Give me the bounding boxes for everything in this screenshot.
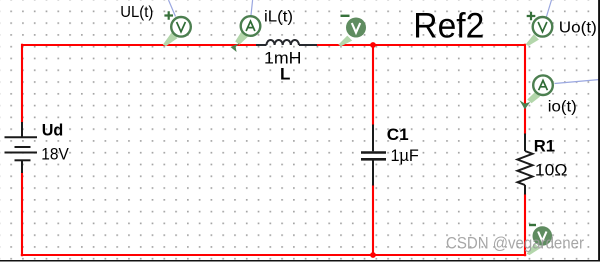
leader line UL probe	[169, 0, 176, 17]
label iL(t)	[264, 9, 293, 26]
svg-text:UL(t): UL(t)	[120, 4, 153, 21]
label Ud	[42, 121, 64, 140]
label Uo(t)	[559, 20, 597, 37]
value 1uF	[391, 147, 419, 165]
probe V UL(t)	[163, 11, 191, 46]
wire top-left segment	[22, 44, 258, 46]
junction bottom node	[370, 252, 376, 258]
wire left lower	[21, 173, 23, 257]
svg-text:Uo(t): Uo(t)	[559, 20, 597, 37]
inductor L 1mH	[256, 40, 317, 45]
leader line Uo probe	[547, 0, 552, 17]
leader line io probe	[555, 80, 600, 84]
label R1	[534, 137, 555, 156]
wire top-right segment	[316, 44, 525, 46]
battery V1 Ud 18V	[5, 122, 38, 173]
label io(t)	[548, 98, 577, 115]
capacitor C1 1uF	[361, 125, 386, 186]
label C1	[387, 125, 409, 144]
svg-text:1µF: 1µF	[391, 147, 419, 165]
right border line	[598, 0, 600, 262]
svg-text:L: L	[280, 65, 290, 84]
Ref2 title	[413, 5, 484, 45]
label L	[280, 65, 290, 84]
wire middle upper	[372, 45, 374, 126]
svg-text:CSDN @vegardener: CSDN @vegardener	[446, 235, 585, 253]
leader line iL probe	[251, 0, 253, 16]
wire middle lower	[372, 185, 374, 256]
value 18V	[41, 146, 69, 164]
probe V minus bottom	[527, 225, 553, 255]
svg-text:io(t): io(t)	[548, 98, 577, 115]
svg-text:iL(t): iL(t)	[264, 9, 293, 26]
svg-text:C1: C1	[387, 125, 409, 144]
value 10ohm	[535, 161, 568, 179]
junction top node	[370, 42, 376, 48]
bottom border line	[0, 260, 600, 262]
wire bottom	[21, 254, 526, 256]
watermark CSDN	[446, 235, 585, 253]
svg-text:10Ω: 10Ω	[535, 161, 568, 179]
wire right lower	[524, 194, 526, 257]
probe V Uo(t)	[526, 12, 553, 46]
svg-text:Ud: Ud	[42, 121, 64, 140]
label UL(t)	[120, 4, 153, 21]
wire left upper	[21, 44, 23, 123]
probe V minus mid	[338, 16, 366, 46]
wire right upper	[524, 44, 526, 135]
svg-text:Ref2: Ref2	[413, 5, 484, 45]
probe A io(t)	[520, 75, 553, 109]
resistor R1 10ohm	[518, 134, 533, 195]
svg-text:18V: 18V	[41, 146, 69, 164]
value 1mH	[264, 50, 302, 68]
svg-text:R1: R1	[534, 137, 555, 156]
probe A iL(t)	[231, 16, 261, 52]
